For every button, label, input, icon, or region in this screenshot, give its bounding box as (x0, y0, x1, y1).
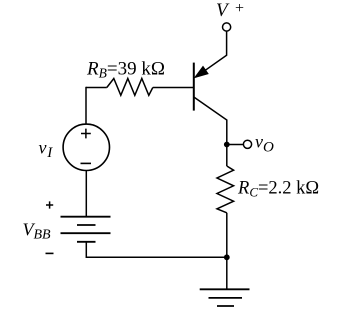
wire RC to ground rail (226, 213, 228, 257)
wire V+ terminal to emitter (196, 31, 227, 77)
wire RB corner down to vI (85, 87, 87, 124)
battery VBB plate long bottom (61, 232, 111, 234)
power terminal V+ (223, 23, 231, 31)
wire battery bottom to ground rail (86, 242, 227, 257)
transistor Q1 collector (194, 97, 227, 143)
battery plus sign (46, 201, 53, 208)
source vI plus sign (81, 129, 91, 139)
svg-text:RB=39 kΩ: RB=39 kΩ (86, 59, 165, 81)
svg-text:+: + (235, 0, 244, 17)
ground (200, 288, 250, 290)
source vI circle (63, 124, 109, 170)
resistor RC (217, 166, 234, 213)
battery VBB plate short (77, 224, 96, 226)
node collector junction dot (224, 142, 230, 148)
transistor Q1 base bar (193, 63, 195, 111)
output terminal vO (243, 140, 251, 148)
wire collector to vO terminal (227, 144, 243, 146)
transistor Q1 emitter arrowhead (195, 67, 208, 78)
node ground junction dot (224, 254, 230, 260)
resistor RB (107, 79, 153, 96)
battery VBB plate long top (61, 216, 111, 218)
wire collector node to RC (226, 145, 228, 167)
battery minus sign (46, 252, 54, 254)
wire vI to battery (85, 171, 87, 217)
wire left of RB (86, 87, 107, 89)
source vI minus sign (81, 162, 92, 164)
wire down to ground (226, 257, 228, 289)
wire RB to base (153, 87, 193, 89)
battery VBB plate short bottom (77, 241, 96, 243)
